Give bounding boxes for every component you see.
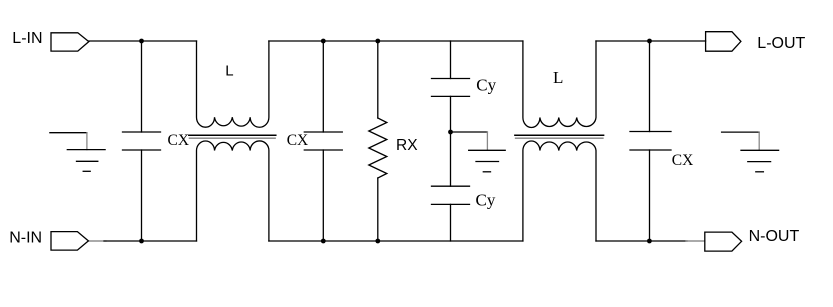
svg-text:CX: CX (672, 152, 694, 169)
ground GND middle (469, 132, 506, 172)
node bottom rail CX3 junction (647, 239, 652, 244)
svg-text:L-IN: L-IN (12, 30, 42, 47)
svg-text:RX: RX (396, 137, 418, 154)
node top rail CX3 junction (647, 39, 652, 44)
capacitor Cy1 (432, 41, 470, 132)
svg-text:CX: CX (168, 132, 190, 149)
core L2 (515, 135, 604, 138)
ground GND right (722, 132, 779, 172)
core L1 (189, 135, 276, 138)
svg-text:L: L (225, 63, 233, 80)
wire top rail segment 2 (269, 40, 523, 42)
resistor RX (369, 41, 387, 241)
svg-text:L: L (553, 68, 563, 87)
wire top rail segment 3 (596, 40, 706, 42)
capacitor CX2 (304, 41, 342, 241)
node top rail CX1 junction (139, 39, 144, 44)
svg-text:CX: CX (287, 132, 309, 149)
svg-text:Cy: Cy (476, 190, 496, 209)
node bottom rail CX2 junction (321, 239, 326, 244)
wire top rail segment 1 (89, 40, 197, 42)
svg-text:Cy: Cy (476, 76, 496, 95)
wire bottom rail segment 2 (269, 240, 523, 242)
ground GND left (50, 133, 105, 172)
wire bottom rail segment 3 (596, 240, 687, 242)
svg-text:N-OUT: N-OUT (749, 228, 800, 245)
wire bottom rail segment 1 (88, 240, 106, 242)
node top rail CX2 junction (321, 39, 326, 44)
wire Cy midpoint to middle ground (451, 131, 488, 133)
inductor L2 top winding (523, 41, 596, 128)
capacitor CX3 (630, 41, 671, 241)
connector J1 L-IN (51, 33, 89, 51)
inductor L1 top winding (197, 41, 269, 127)
svg-text:N-IN: N-IN (9, 230, 42, 247)
capacitor CX1 (123, 41, 161, 241)
svg-text:L-OUT: L-OUT (757, 35, 805, 52)
inductor L1 bottom winding (197, 141, 269, 241)
node Cy midpoint (448, 130, 453, 135)
connector J4 N-OUT (705, 232, 742, 251)
connector J2 L-OUT (706, 32, 741, 52)
node bottom rail RX junction (375, 239, 380, 244)
connector J3 N-IN (51, 232, 88, 251)
inductor L2 bottom winding (523, 141, 596, 241)
capacitor Cy2 (432, 132, 470, 241)
node bottom rail CX1 junction (139, 239, 144, 244)
node top rail RX junction (375, 39, 380, 44)
